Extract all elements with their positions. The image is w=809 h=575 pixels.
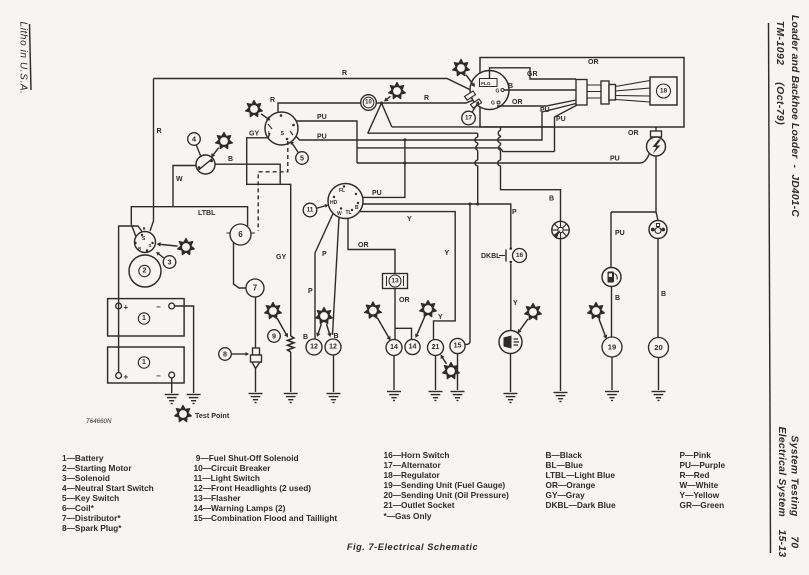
wire harness line B (368, 132, 478, 134)
svg-text:GR: GR (527, 71, 538, 78)
wire alternator GR (490, 68, 577, 79)
svg-text:G: G (496, 89, 500, 95)
connector block 3 (609, 85, 616, 101)
wire R key switch to circuit breaker (278, 103, 361, 114)
svg-text:4: 4 (192, 135, 196, 144)
label circle 17 (462, 101, 479, 125)
svg-text:R: R (342, 70, 347, 77)
svg-text:G: G (491, 101, 495, 107)
svg-text:LTBL: LTBL (198, 210, 216, 217)
svg-text:P: P (512, 209, 517, 216)
wire fuse down (655, 156, 657, 212)
battery 1 terminals (116, 303, 122, 309)
fuel gauge icon (608, 272, 615, 283)
svg-text:19: 19 (608, 343, 616, 352)
wire battery 2 negative to ground (171, 378, 173, 393)
wire harness line E (PU to fuse) (357, 153, 650, 163)
svg-text:S: S (149, 243, 152, 248)
wire drop to taillight 15 (464, 204, 470, 345)
label circle 4 (188, 133, 201, 146)
wire hour meter to ground (560, 239, 562, 391)
wire spark plug to ground (255, 369, 257, 393)
ground under outlet socket (429, 392, 443, 401)
node FL junction on line E (403, 162, 406, 165)
wire LTBL (131, 207, 247, 227)
svg-text:R: R (157, 128, 162, 135)
wire harness line D (357, 148, 555, 152)
wire P to headlight left (315, 214, 333, 340)
legend column 5 color codes (680, 450, 726, 511)
warning lamp left (14) (386, 340, 402, 356)
svg-text:P: P (322, 251, 327, 258)
wire outlet socket to ground (435, 356, 437, 391)
alternator plug blades (465, 91, 476, 100)
wire 19 to ground (611, 357, 613, 390)
wire fan diagonal lower (368, 103, 382, 133)
star test point sending unit fuel (588, 302, 608, 339)
wire solenoid feed from battery (119, 226, 143, 233)
svg-text:5: 5 (300, 154, 304, 163)
wire light switch FL riser (352, 140, 405, 198)
ground under warning lamp (387, 392, 401, 401)
fuse holder stem (655, 127, 657, 131)
legend column 1 (62, 453, 154, 534)
outlet socket (21) (428, 340, 444, 356)
indicator lamp circle (649, 221, 667, 239)
wire harness riser to connector PU (555, 105, 579, 152)
wire fuel gauge lamp down (611, 287, 613, 338)
star test point at key switch (246, 100, 271, 120)
svg-text:PU: PU (317, 134, 327, 141)
alternator circle (17) (470, 71, 509, 110)
horn icon (504, 336, 512, 349)
svg-text:15: 15 (454, 343, 462, 350)
wire harness drop at 500 to hour meter (B) (501, 127, 561, 222)
svg-text:OR: OR (512, 99, 523, 106)
starting motor label 2 (139, 265, 150, 276)
wire harness line C (PU from key switch) (294, 104, 576, 141)
svg-text:GY: GY (249, 131, 259, 138)
wire indicator lamp down (657, 239, 659, 338)
star test point solenoid (157, 238, 195, 254)
wire to indicator lamp (656, 212, 658, 221)
ground battery 2 (165, 395, 179, 404)
circuit breaker (10) inner (363, 97, 374, 108)
svg-text:17: 17 (465, 115, 473, 122)
wire OR light switch to flasher (348, 218, 395, 273)
svg-text:P: P (308, 288, 313, 295)
svg-text:16: 16 (516, 252, 524, 259)
hour meter circle (552, 221, 569, 238)
ground battery 1 (187, 395, 201, 404)
connector block 1 (576, 80, 587, 106)
connector block 2 (601, 81, 609, 104)
svg-text:3: 3 (168, 258, 172, 267)
ground under hour meter (554, 393, 568, 402)
solenoid circle (3) (135, 232, 156, 253)
horn switch contact (510, 247, 513, 250)
star test point at neutral start switch (211, 132, 232, 157)
svg-text:TM-1092 (Oct-79): TM-1092 (Oct-79) (774, 21, 785, 125)
test point legend star (175, 405, 192, 421)
key switch terminal marks (280, 114, 283, 117)
wire taillight to ground (457, 354, 459, 390)
svg-text:+: + (124, 373, 129, 382)
sending unit oil pressure (20) (649, 338, 669, 358)
wire W neutral switch left (173, 166, 196, 207)
light switch circle (11) (328, 184, 363, 219)
svg-text:Y: Y (438, 314, 443, 321)
svg-text:14: 14 (409, 344, 417, 351)
svg-text:20: 20 (654, 343, 662, 352)
svg-text:+: + (124, 303, 129, 312)
wire warning lamp to ground (393, 356, 395, 391)
warning lamp right (14) (405, 339, 420, 354)
svg-text:7: 7 (253, 284, 258, 293)
ground under horn (504, 394, 518, 403)
ground under fuel solenoid (284, 394, 298, 403)
svg-text:B: B (508, 83, 513, 90)
fuel shut-off solenoid winding (288, 336, 294, 352)
wire alternator B to connector (504, 89, 576, 91)
svg-text:13: 13 (391, 278, 399, 285)
key switch circle (5) (265, 112, 298, 145)
svg-text:B: B (661, 291, 666, 298)
svg-text:R: R (424, 95, 429, 102)
wire flasher to warning lamps (395, 289, 412, 340)
svg-text:11: 11 (307, 207, 314, 214)
svg-text:S: S (281, 131, 285, 137)
svg-text:12: 12 (329, 344, 337, 351)
label circle 5 (291, 141, 309, 164)
wire fuel solenoid to ground (290, 352, 292, 392)
legend column 2 (194, 453, 338, 524)
svg-text:Y: Y (513, 300, 518, 307)
wire coil to distributor (234, 243, 247, 289)
star test point alternator (453, 59, 475, 87)
star test point fuel solenoid (265, 302, 288, 337)
svg-text:OR: OR (628, 130, 639, 137)
label circle 3 (156, 252, 176, 268)
label circle 8 (219, 348, 249, 361)
horn circle (499, 331, 522, 354)
fuse holder cap (651, 131, 662, 137)
wire Y light switch (359, 212, 455, 340)
ground under 20 (652, 392, 666, 401)
svg-text:B: B (334, 333, 339, 340)
left margin rule (30, 24, 32, 90)
battery 1 box (108, 299, 185, 336)
svg-text:Test Point: Test Point (195, 411, 230, 420)
svg-text:B: B (355, 205, 359, 211)
svg-text:1: 1 (142, 315, 146, 322)
label circle 9 (268, 330, 281, 343)
wire LTBL to solenoid diagonal (131, 224, 137, 241)
svg-text:10: 10 (365, 100, 372, 106)
regulator fan wires (616, 81, 651, 103)
battery 2 terminals (116, 373, 122, 379)
svg-text:8: 8 (223, 350, 227, 359)
svg-text:18: 18 (660, 88, 668, 95)
svg-text:GY: GY (276, 254, 286, 261)
fuel gauge lamp circle (602, 268, 621, 287)
right margin rule (769, 23, 771, 553)
wire B neutral switch to coil net (215, 164, 280, 184)
node junctions on B wire (469, 203, 472, 206)
indicator lamp icon (651, 228, 655, 232)
svg-text:21: 21 (432, 344, 440, 351)
circuit breaker (10) outer (361, 95, 377, 111)
alternator FLG box (480, 79, 498, 87)
svg-text:OR: OR (358, 242, 369, 249)
svg-text:−: − (156, 372, 161, 381)
regulator enclosure box (480, 58, 684, 128)
star test point at circuit breaker (384, 82, 405, 101)
star test point warning lamp right (415, 300, 436, 338)
svg-text:W: W (176, 176, 183, 183)
svg-text:Y: Y (445, 250, 450, 257)
svg-text:HD: HD (330, 200, 338, 206)
ground under 19 (605, 392, 619, 401)
svg-text:T64660N: T64660N (86, 418, 112, 425)
fuse lightning bolt (653, 140, 662, 155)
svg-text:B: B (549, 196, 554, 203)
svg-text:PU: PU (540, 107, 550, 114)
headlight left (12) (306, 339, 322, 355)
label dash DKBL (499, 255, 505, 257)
wire battery positive bus (118, 226, 120, 373)
battery 1 label (138, 313, 149, 324)
spark plug symbol (251, 348, 262, 369)
regulator box (18) (650, 77, 677, 105)
svg-text:W: W (337, 211, 342, 217)
wire horn to ground (510, 354, 512, 393)
svg-text:R: R (270, 97, 275, 104)
svg-text:PU: PU (372, 190, 382, 197)
svg-text:FLG: FLG (481, 81, 491, 87)
svg-text:B: B (615, 295, 620, 302)
wire headlight right to ground (333, 355, 335, 392)
svg-text:DKBL: DKBL (481, 253, 501, 260)
wire distributor to spark plug (255, 297, 257, 348)
wire R main left vertical (150, 79, 154, 232)
node junction right of circuit breaker (380, 102, 383, 105)
svg-text:OR: OR (588, 59, 599, 66)
wire PU branch to fuel gauge lamp (611, 212, 656, 268)
wire 20 to ground (658, 358, 660, 391)
wire harness line A (PU) (392, 126, 555, 128)
coil (6) (230, 224, 251, 245)
neutral start switch circle (4) (196, 155, 215, 174)
wire R circuit breaker to alternator (376, 96, 483, 103)
svg-text:9: 9 (272, 332, 276, 341)
svg-text:12: 12 (310, 344, 318, 351)
svg-text:Y: Y (407, 216, 412, 223)
ground under headlight (327, 394, 341, 403)
label circle 11 (303, 203, 328, 217)
headlight right (12) (325, 339, 341, 355)
svg-text:−: − (156, 303, 161, 312)
star test point warning lamp left (365, 302, 391, 341)
wire horn switch to horn (510, 264, 512, 331)
svg-text:OR: OR (399, 297, 410, 304)
svg-text:TL: TL (346, 210, 352, 216)
svg-text:6: 6 (238, 230, 243, 239)
star test point horn (518, 303, 542, 333)
svg-text:B: B (228, 156, 233, 163)
horn switch circle (16) (513, 249, 527, 263)
svg-text:PU: PU (610, 156, 620, 163)
wire P to headlight right (333, 218, 340, 336)
wire light switch B to horn switch (363, 204, 511, 248)
svg-text:System Testing 70: System Testing 70 (789, 435, 800, 548)
flasher (13) box (383, 274, 408, 289)
taillight (15) (450, 338, 465, 353)
battery 2 label (138, 357, 149, 368)
svg-text:FL: FL (339, 188, 345, 194)
wire R top horizontal (154, 79, 481, 95)
ground under spark plug (249, 394, 263, 403)
legend column 4 color codes (546, 450, 616, 511)
svg-text:Electrical System 15-13: Electrical System 15-13 (776, 427, 787, 558)
svg-text:PU: PU (556, 116, 566, 123)
flasher (13) circle (389, 275, 401, 287)
connector wires (587, 85, 601, 98)
legend column 3 (384, 450, 509, 521)
svg-text:1: 1 (142, 359, 146, 366)
wire alternator OR to connector (497, 100, 576, 106)
wire dashed key S to coil (258, 141, 288, 231)
starting motor circle (2) (129, 255, 161, 287)
svg-text:PU: PU (615, 230, 625, 237)
wire GY from key switch (247, 133, 291, 336)
star test point outlet socket (441, 355, 460, 379)
svg-text:2: 2 (143, 268, 147, 275)
svg-text:Litho in U.S.A.: Litho in U.S.A. (18, 22, 29, 95)
svg-text:14: 14 (390, 344, 398, 351)
ground under taillight (451, 392, 465, 401)
svg-text:Loader and Backhoe Loader -: Loader and Backhoe Loader - JD401-C (789, 15, 800, 217)
wire key switch PU upper (296, 121, 357, 163)
svg-text:B: B (303, 334, 308, 341)
battery 2 box (108, 347, 185, 383)
wire fan diagonal upper (382, 103, 392, 127)
wire harness drop at 477 to light circuits (477, 133, 479, 204)
figure caption (0, 542, 809, 552)
svg-text:PU: PU (317, 114, 327, 121)
distributor (7) (246, 279, 264, 297)
sending unit fuel gauge (19) (602, 337, 622, 357)
regulator circle 18 (657, 84, 671, 98)
wire battery 1 negative to ground (175, 306, 194, 393)
fuse circle (647, 137, 666, 156)
star test point headlights (316, 307, 333, 337)
